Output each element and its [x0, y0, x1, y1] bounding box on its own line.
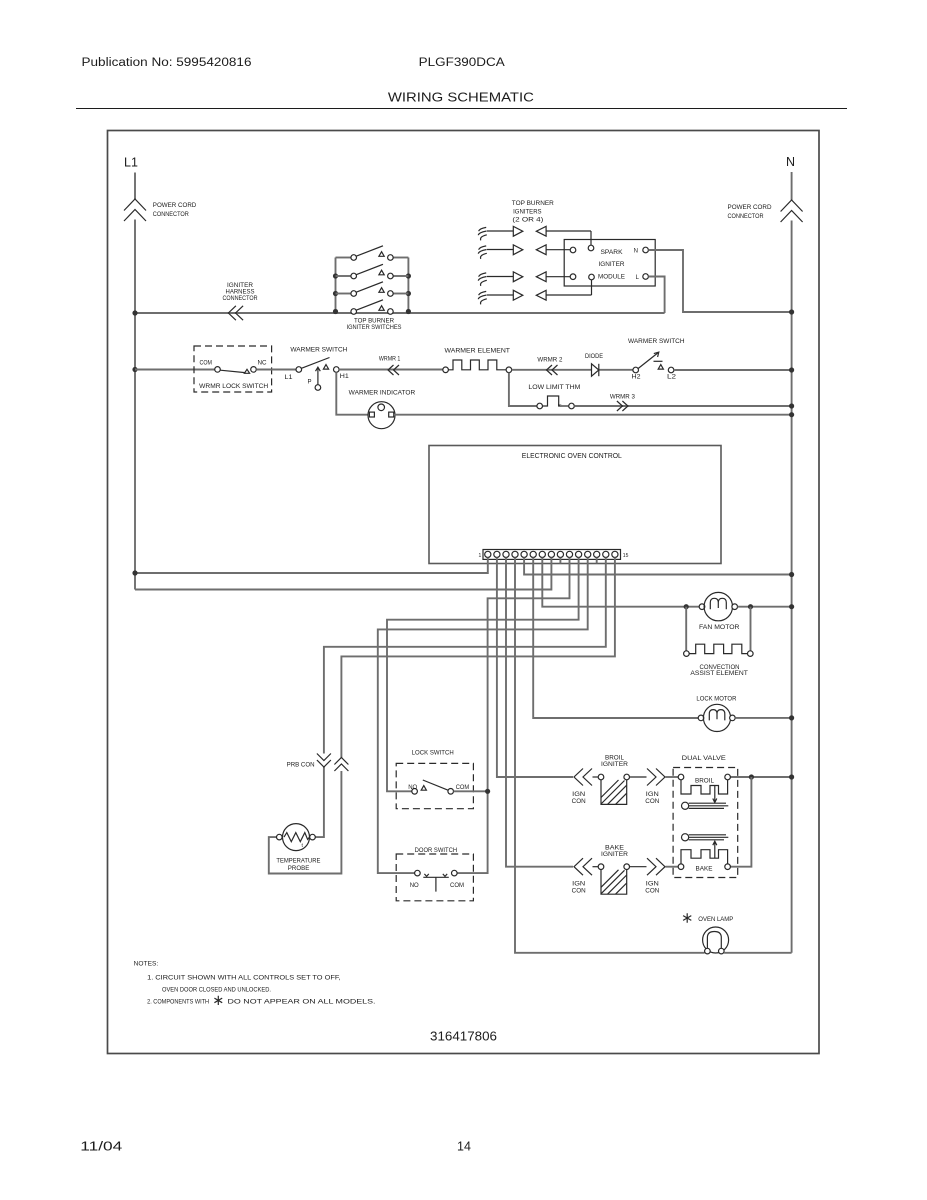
EOC terminal strip: [483, 550, 621, 560]
schematic border frame: [108, 131, 820, 1054]
wire L1 vertical upper: [134, 173, 136, 200]
svg-text:WIRING SCHEMATIC: WIRING SCHEMATIC: [388, 90, 534, 105]
svg-text:TOP BURNER: TOP BURNER: [512, 201, 555, 207]
warmer element: [443, 367, 449, 373]
wire module L to L1 bus: [648, 277, 664, 314]
svg-text:NO: NO: [408, 785, 417, 791]
svg-text:WRMR 3: WRMR 3: [610, 394, 636, 400]
lock switch contact mark: [421, 786, 426, 791]
wire L2 to N: [674, 369, 792, 371]
svg-text:TEMPERATURE: TEMPERATURE: [276, 859, 320, 865]
svg-text:MODULE: MODULE: [598, 274, 625, 280]
wire main L1 bus y=313: [135, 312, 665, 314]
bake igniter ign con right: [647, 858, 665, 875]
svg-text:FAN MOTOR: FAN MOTOR: [699, 625, 740, 631]
igniter harness connector: [228, 306, 243, 320]
junction N pin5 row: [789, 572, 794, 577]
wire H1 to warmer element: [339, 369, 443, 371]
wire valve broil to N: [730, 776, 791, 778]
svg-text:CON: CON: [572, 799, 586, 805]
wire oven lamp to N: [724, 952, 792, 954]
door switch COM contact: [452, 870, 458, 876]
svg-text:14: 14: [457, 1140, 471, 1154]
junction right bus row3: [406, 291, 411, 296]
bake plunger: [682, 834, 689, 841]
svg-text:IGN: IGN: [572, 882, 585, 888]
wire NC to warmer switch L1: [256, 369, 296, 371]
warmer switch 2 H2 contact: [633, 367, 639, 373]
svg-text:PLGF390DCA: PLGF390DCA: [419, 57, 505, 69]
wire low limit to N: [574, 405, 791, 407]
svg-text:CONVECTION: CONVECTION: [700, 665, 740, 671]
svg-text:IGNITERS: IGNITERS: [513, 210, 542, 216]
wire pin4 to oven lamp: [515, 558, 705, 953]
warmer switch H1 contact mark: [323, 365, 328, 370]
lock switch NO contact: [412, 789, 418, 795]
svg-text:IGNITER: IGNITER: [601, 852, 629, 858]
svg-text:ASSIST ELEMENT: ASSIST ELEMENT: [690, 671, 748, 677]
svg-text:BROIL: BROIL: [605, 756, 625, 762]
svg-text:N: N: [786, 155, 795, 169]
igniter switch 4: [351, 300, 393, 315]
wire H1 drop to indicator: [336, 372, 369, 414]
warmer switch 2 L2 contact: [668, 367, 674, 373]
lock switch blade: [423, 780, 449, 791]
svg-text:CON: CON: [645, 889, 659, 895]
top burner igniter switches left bus: [335, 258, 337, 312]
wire L1 bottom to pin8: [135, 558, 551, 590]
junction pin10 line at lock COM: [485, 789, 490, 794]
wire indicator to N: [394, 414, 792, 416]
svg-text:N: N: [634, 249, 638, 255]
top burner igniter 4: [478, 280, 591, 305]
warmer switch 2 blade with arrow: [638, 353, 658, 369]
bake solenoid actuator arrow: [713, 841, 717, 858]
svg-text:H1: H1: [340, 374, 350, 380]
svg-text:LOCK MOTOR: LOCK MOTOR: [696, 697, 737, 703]
svg-text:H2: H2: [632, 375, 642, 381]
svg-text:316417806: 316417806: [430, 1029, 497, 1044]
module terminal left top: [570, 247, 576, 253]
convection element branch wires: [685, 607, 687, 651]
wire lock switch COM to pin10 line: [454, 790, 488, 792]
svg-text:L1: L1: [124, 156, 138, 170]
svg-text:15: 15: [623, 553, 629, 559]
svg-text:CON: CON: [572, 889, 586, 895]
svg-text:CONNECTOR: CONNECTOR: [728, 214, 765, 220]
wire L1 to wrmr lock switch COM: [135, 369, 215, 371]
lock motor M2: [698, 715, 704, 721]
svg-text:WRMR LOCK SWITCH: WRMR LOCK SWITCH: [199, 384, 268, 390]
lock switch COM contact: [448, 789, 454, 795]
wire element to H2: [512, 369, 633, 371]
junction right bus row2: [406, 273, 411, 278]
junction N broil row: [789, 774, 794, 779]
svg-text:NOTES:: NOTES:: [134, 962, 159, 968]
svg-text:WARMER SWITCH: WARMER SWITCH: [290, 347, 347, 353]
wire broil branch down to bake right: [730, 777, 751, 867]
wire L1 vertical main: [134, 220, 136, 590]
svg-text:IGNITER: IGNITER: [227, 283, 254, 289]
svg-text:IGN: IGN: [572, 792, 585, 798]
wire pin7 to fan motor: [542, 558, 699, 607]
wire pin12 to door switch NO: [378, 558, 588, 874]
svg-text:NC: NC: [258, 360, 268, 366]
svg-text:COM: COM: [450, 883, 464, 889]
bake igniter ign con left: [574, 858, 592, 875]
wire pin11 to lock switch NO: [387, 558, 579, 792]
warmer switch P terminal: [317, 368, 319, 385]
igniter switch 1: [336, 246, 409, 260]
wire pin15 to probe left loop: [341, 558, 615, 758]
door switch plunger: [423, 877, 449, 891]
top burner igniter 2: [478, 245, 570, 259]
wrmr lock switch dashed box: [194, 346, 272, 392]
svg-text:SPARK: SPARK: [601, 250, 623, 256]
svg-text:CON: CON: [645, 799, 659, 805]
svg-text:DO NOT APPEAR ON ALL MODELS.: DO NOT APPEAR ON ALL MODELS.: [228, 1000, 376, 1006]
top burner igniter 1: [478, 226, 591, 245]
junction L1 pin1 row: [132, 570, 137, 575]
oven lamp: [703, 927, 729, 953]
wire pin6 to lock motor: [533, 558, 698, 719]
junction N line top: [789, 309, 794, 314]
strip terminals 1-15: [485, 551, 618, 557]
junction broil right branch: [749, 774, 754, 779]
header rule: [76, 108, 847, 110]
bake igniter element: [593, 866, 599, 868]
wire pin14 to probe right (PRB CON): [324, 558, 606, 754]
junction left bus row3: [333, 291, 338, 296]
svg-text:IGNITER: IGNITER: [601, 762, 629, 768]
lock switch dashed box: [396, 763, 473, 808]
connector WRMR 1: [388, 365, 399, 375]
svg-text:PRB CON: PRB CON: [287, 763, 315, 769]
svg-text:DIODE: DIODE: [585, 354, 603, 360]
svg-text:P: P: [308, 380, 312, 386]
svg-text:BAKE: BAKE: [605, 846, 624, 852]
convection assist element: [684, 651, 690, 657]
warmer switch 2 off tick: [654, 360, 663, 362]
igniter switch 3: [336, 282, 409, 297]
broil igniter ign con right: [647, 769, 665, 786]
junction fan right branch: [748, 604, 753, 609]
junction N lock motor row: [789, 715, 794, 720]
svg-text:PROBE: PROBE: [288, 866, 310, 872]
svg-text:IGNITER: IGNITER: [599, 262, 626, 268]
junction N fan row: [789, 604, 794, 609]
door switch dashed box: [396, 854, 473, 901]
svg-text:IGNITER SWITCHES: IGNITER SWITCHES: [347, 325, 402, 331]
junction L1 warmer row: [132, 367, 137, 372]
fan motor M1: [699, 604, 705, 610]
diode D1: [592, 364, 599, 376]
module terminal inner top: [588, 245, 594, 251]
svg-text:ELECTRONIC OVEN CONTROL: ELECTRONIC OVEN CONTROL: [522, 453, 622, 460]
junction fan motor left: [684, 604, 689, 609]
dual valve dashed box: [673, 768, 738, 878]
warmer switch 2 L2 contact mark: [658, 365, 663, 370]
broil solenoid: [678, 774, 684, 780]
svg-text:TOP BURNER: TOP BURNER: [354, 318, 395, 324]
junction L1 bus at L1: [132, 310, 137, 315]
svg-text:(2 OR 4): (2 OR 4): [512, 218, 543, 224]
svg-text:IGN: IGN: [646, 792, 659, 798]
svg-text:COM: COM: [200, 360, 213, 366]
wire N vertical main: [791, 221, 793, 953]
broil solenoid actuator arrow: [713, 786, 717, 803]
low limit thermostat: [537, 403, 543, 409]
note asterisk: [214, 996, 222, 1005]
svg-text:CONNECTOR: CONNECTOR: [223, 296, 259, 302]
connector WRMR 2: [547, 365, 558, 375]
warmer switch L1 contact: [296, 367, 302, 373]
svg-text:WRMR 1: WRMR 1: [379, 357, 401, 363]
bake solenoid: [678, 864, 684, 870]
junction N wrmr3 row: [789, 403, 794, 408]
wrmr lock switch contact mark: [244, 369, 249, 373]
wire pin1 to L1: [135, 558, 488, 574]
temperature probe RT1: [283, 824, 310, 851]
wire fan motor to N: [738, 606, 792, 608]
broil plunger: [682, 802, 689, 809]
module terminal N: [643, 247, 649, 253]
svg-text:L2: L2: [667, 375, 677, 381]
svg-text:BAKE: BAKE: [696, 866, 713, 872]
broil igniter ign con left: [574, 769, 592, 786]
svg-text:1: 1: [479, 553, 482, 559]
svg-text:BROIL: BROIL: [695, 779, 715, 785]
door switch NO contact: [415, 870, 421, 876]
wire pin5 to N: [524, 558, 792, 575]
svg-text:1. CIRCUIT SHOWN WITH ALL CON: 1. CIRCUIT SHOWN WITH ALL CONTROLS SET T…: [147, 976, 341, 982]
wrmr lock switch blade: [220, 370, 247, 373]
svg-text:WARMER INDICATOR: WARMER INDICATOR: [349, 391, 416, 397]
svg-text:IGN: IGN: [646, 882, 659, 888]
wrmr lock switch NC contact: [251, 367, 257, 373]
svg-text:POWER CORD: POWER CORD: [153, 203, 197, 209]
svg-text:WARMER ELEMENT: WARMER ELEMENT: [445, 348, 511, 354]
junction N indicator row: [789, 412, 794, 417]
broil igniter element: [593, 776, 599, 778]
svg-text:LOW LIMIT THM: LOW LIMIT THM: [528, 385, 580, 391]
wire lock motor to N: [735, 717, 791, 719]
svg-text:LOCK SWITCH: LOCK SWITCH: [412, 751, 454, 757]
svg-text:DOOR SWITCH: DOOR SWITCH: [415, 848, 458, 854]
pin 13 stub: [596, 558, 598, 564]
svg-text:Publication No: 5995420816: Publication No: 5995420816: [82, 57, 252, 69]
top burner igniter 3: [478, 272, 570, 286]
svg-text:WRMR 2: WRMR 2: [537, 358, 563, 364]
svg-text:WARMER SWITCH: WARMER SWITCH: [628, 339, 685, 345]
svg-text:11/04: 11/04: [80, 1140, 122, 1154]
svg-text:COM: COM: [456, 785, 470, 791]
wire module N to N line: [648, 250, 791, 312]
junction right bus row4: [406, 309, 411, 314]
connector WRMR 3: [617, 401, 628, 411]
wrmr lock switch COM contact: [215, 367, 221, 373]
svg-text:2. COMPONENTS WITH: 2. COMPONENTS WITH: [147, 1000, 209, 1006]
junction left bus row4: [333, 309, 338, 314]
pin 9 stub: [559, 558, 561, 564]
wire ign con to valve bake: [666, 866, 679, 868]
svg-text:POWER CORD: POWER CORD: [728, 205, 773, 211]
junction left bus row2: [333, 273, 338, 278]
wire ign con to valve broil: [666, 776, 679, 778]
svg-text:NO: NO: [410, 883, 419, 889]
wire pin2 to broil igniter: [497, 558, 573, 778]
svg-text:OVEN DOOR CLOSED AND UNLOCKED.: OVEN DOOR CLOSED AND UNLOCKED.: [162, 988, 271, 994]
power cord connector L1: [124, 199, 146, 221]
module terminal inner bottom: [589, 274, 595, 280]
wire pin3 to bake igniter: [506, 558, 573, 867]
svg-text:OVEN LAMP: OVEN LAMP: [698, 917, 733, 923]
warmer switch blade: [301, 358, 329, 369]
junction N warmer row: [789, 367, 794, 372]
svg-text:L1: L1: [285, 375, 294, 381]
wire pin10 to lock and door switch COM: [457, 558, 569, 874]
wire element to low limit: [509, 373, 537, 406]
electronic oven control box: [429, 446, 721, 564]
warmer switch H1 contact: [334, 367, 340, 373]
top burner igniter switches right bus: [407, 258, 409, 312]
warmer indicator lamp: [368, 402, 395, 429]
module terminal L: [643, 274, 649, 280]
oven lamp asterisk: [683, 913, 691, 923]
prb con connector chevrons: [317, 754, 331, 768]
igniter switch 2: [336, 264, 409, 279]
svg-text:CONNECTOR: CONNECTOR: [153, 212, 190, 218]
power cord connector N: [781, 200, 803, 222]
module terminal left bottom: [570, 274, 576, 280]
svg-text:HARNESS: HARNESS: [226, 290, 255, 296]
wire N vertical upper: [791, 172, 793, 200]
spark igniter module box U1: [564, 240, 655, 287]
svg-text:DUAL VALVE: DUAL VALVE: [682, 756, 726, 762]
